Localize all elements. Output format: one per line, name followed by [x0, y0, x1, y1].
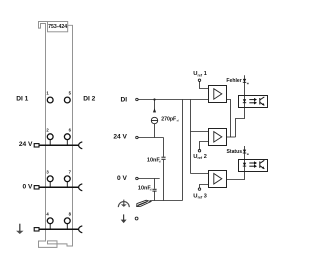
svg-text:8: 8 [69, 211, 72, 216]
svg-text:2: 2 [204, 154, 207, 160]
svg-text:el: el [150, 189, 152, 192]
svg-text:0 V: 0 V [117, 175, 127, 182]
svg-text:Status: Status [227, 149, 243, 155]
svg-text:270pF: 270pF [161, 117, 176, 123]
svg-text:ref: ref [198, 73, 203, 77]
svg-text:3: 3 [46, 169, 49, 174]
svg-text:ref: ref [198, 196, 203, 200]
svg-text:DI 2: DI 2 [83, 96, 95, 103]
svg-text:753-424: 753-424 [48, 24, 67, 30]
svg-text:2: 2 [46, 127, 49, 132]
svg-text:24 V: 24 V [113, 134, 127, 141]
svg-text:24 V: 24 V [19, 141, 33, 148]
svg-text:0 V: 0 V [22, 183, 32, 190]
svg-text:3: 3 [204, 193, 207, 199]
svg-text:7: 7 [69, 169, 72, 174]
svg-text:el: el [159, 160, 161, 163]
svg-text:DI: DI [121, 96, 128, 103]
svg-text:5: 5 [69, 91, 72, 96]
svg-text:1: 1 [46, 91, 49, 96]
svg-text:el: el [177, 119, 179, 123]
svg-text:4: 4 [46, 211, 49, 216]
svg-text:6: 6 [69, 127, 72, 132]
svg-text:DI 1: DI 1 [16, 96, 28, 103]
svg-text:ref: ref [198, 156, 203, 160]
svg-text:Fehler: Fehler [226, 78, 241, 84]
svg-text:1: 1 [204, 71, 207, 77]
